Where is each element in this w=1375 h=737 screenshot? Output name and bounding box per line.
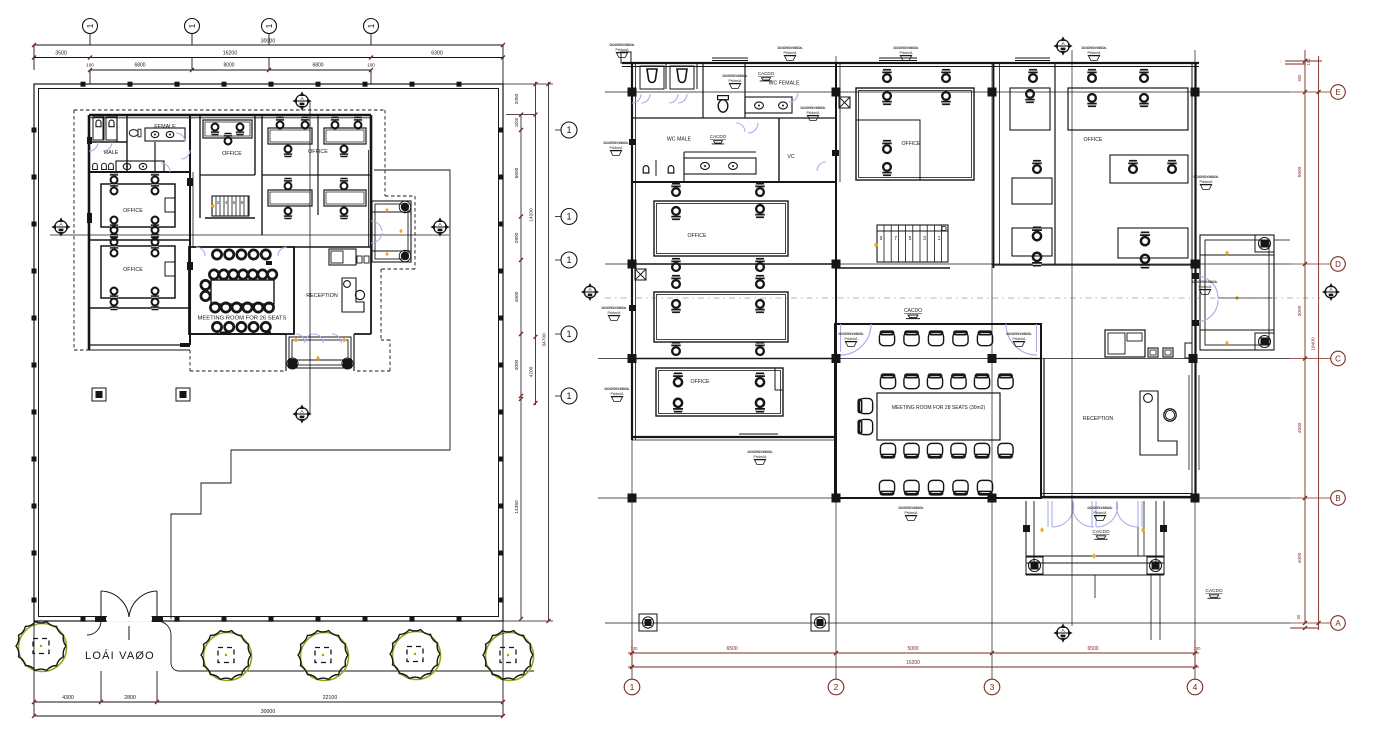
svg-text:OFFICE: OFFICE bbox=[901, 141, 921, 147]
right column offices right plan bbox=[993, 63, 995, 268]
MALE urinals bbox=[93, 163, 98, 169]
reception L desk bbox=[1140, 391, 1177, 455]
svg-text:DOORSYMBOL: DOORSYMBOL bbox=[1193, 280, 1218, 284]
section marker A left bbox=[55, 221, 67, 233]
right office mid desks bbox=[1110, 155, 1188, 183]
svg-text:OFFICE: OFFICE bbox=[123, 267, 143, 273]
WC door arcs bbox=[89, 142, 98, 151]
svg-text:DOORSYMBOL: DOORSYMBOL bbox=[610, 43, 635, 47]
meeting table right plan bbox=[877, 393, 1000, 440]
svg-text:6500: 6500 bbox=[726, 646, 737, 652]
right plan grid bubbles right E D C B A bbox=[1331, 85, 1346, 100]
svg-text:OFFICE: OFFICE bbox=[308, 149, 328, 155]
svg-text:50: 50 bbox=[1296, 614, 1301, 619]
svg-text:16200: 16200 bbox=[223, 51, 238, 57]
svg-text:3500: 3500 bbox=[55, 51, 67, 57]
WC block walls right plan bbox=[632, 117, 836, 119]
svg-text:DOORSYMBOL: DOORSYMBOL bbox=[604, 141, 629, 145]
left plan right-side bubbles bbox=[561, 122, 577, 138]
office C-bottom desks bbox=[656, 368, 783, 416]
right plan grid line A bbox=[605, 622, 1290, 624]
svg-text:1: 1 bbox=[938, 236, 941, 242]
svg-text:Prkbn/A: Prkbn/A bbox=[1088, 51, 1102, 55]
right plan exterior walls bbox=[622, 62, 1199, 64]
svg-text:OFFICE: OFFICE bbox=[222, 151, 242, 157]
svg-text:DOORSYMBOL: DOORSYMBOL bbox=[1007, 332, 1032, 336]
svg-text:100: 100 bbox=[86, 63, 94, 68]
isolated footing columns on grid A bbox=[639, 614, 657, 631]
left plan: top dimension line 30000 bbox=[34, 44, 503, 46]
svg-text:3000: 3000 bbox=[1297, 305, 1303, 316]
svg-text:6500: 6500 bbox=[1087, 646, 1098, 652]
svg-text:DOORSYMBOL: DOORSYMBOL bbox=[748, 450, 773, 454]
terrace columns bbox=[401, 203, 409, 211]
svg-text:CACDO: CACDO bbox=[1205, 588, 1222, 594]
meeting table bbox=[209, 270, 218, 279]
svg-text:Prkbn/A: Prkbn/A bbox=[610, 146, 624, 150]
svg-text:OFFICE: OFFICE bbox=[690, 379, 710, 385]
corridor cacdo labels bbox=[904, 308, 922, 319]
svg-text:Prkbn/A: Prkbn/A bbox=[905, 511, 919, 515]
doorsymbol tags bbox=[610, 43, 635, 52]
meeting room doors bbox=[196, 247, 205, 256]
svg-text:Prkbn/A: Prkbn/A bbox=[900, 51, 914, 55]
svg-text:14350: 14350 bbox=[514, 500, 520, 514]
left offices block 1 walls bbox=[89, 239, 190, 241]
svg-text:1: 1 bbox=[566, 125, 571, 135]
right plan wall jamb blocks bbox=[629, 139, 636, 145]
svg-text:B: B bbox=[1335, 494, 1340, 503]
svg-text:VC: VC bbox=[787, 154, 794, 160]
office D-C desks bbox=[654, 292, 788, 342]
left plan bottom dims bbox=[33, 621, 35, 716]
right office desks top bbox=[1010, 88, 1050, 130]
svg-text:CACDO: CACDO bbox=[758, 71, 775, 76]
svg-text:OFFICE: OFFICE bbox=[123, 208, 143, 214]
right plan grid line 1 bbox=[631, 70, 633, 679]
right plan grid bubbles bottom 1 2 3 4 bbox=[624, 679, 640, 695]
svg-text:A: A bbox=[1335, 619, 1341, 628]
top right office desks/chairs bbox=[276, 117, 285, 129]
meeting room bottom chair row bbox=[212, 322, 221, 331]
svg-text:Prkbn/A: Prkbn/A bbox=[1094, 511, 1108, 515]
WC male urinals bbox=[643, 166, 649, 173]
left building exterior walls bbox=[89, 114, 371, 117]
office E-D desks bbox=[654, 201, 788, 256]
portico door arcs right plan bbox=[1047, 501, 1049, 527]
svg-text:100: 100 bbox=[367, 63, 375, 68]
left plan: building dashed outline bbox=[74, 109, 385, 111]
svg-text:34700: 34700 bbox=[542, 333, 548, 347]
svg-text:30000: 30000 bbox=[261, 709, 276, 715]
meeting room bottom chair row bbox=[879, 480, 894, 494]
meeting room right plan walls bbox=[835, 324, 1041, 498]
terrace columns right plan bbox=[1255, 235, 1274, 252]
portico door arcs bbox=[296, 334, 305, 343]
svg-text:1: 1 bbox=[566, 391, 571, 401]
right plan grid line E bbox=[605, 91, 1290, 93]
svg-text:30000: 30000 bbox=[261, 39, 276, 45]
left plan: top dimension line 100 6800 8000 6800 100 bbox=[90, 69, 371, 71]
right plan grid line 4 bbox=[1194, 50, 1196, 679]
svg-text:Prkbn/A: Prkbn/A bbox=[754, 455, 768, 459]
svg-text:5: 5 bbox=[909, 236, 912, 242]
svg-text:2050: 2050 bbox=[514, 93, 520, 104]
patio slab outline zigzag bbox=[171, 170, 450, 619]
svg-text:Prkbn/A: Prkbn/A bbox=[845, 337, 859, 341]
office1 desks and chairs bbox=[101, 184, 175, 227]
office2 desks and chairs bbox=[101, 246, 175, 298]
portico columns right plan bbox=[1026, 557, 1043, 574]
svg-text:5000: 5000 bbox=[907, 646, 918, 652]
left plan: site boundary double wall bbox=[34, 84, 503, 621]
svg-text:Prkbn/A: Prkbn/A bbox=[1013, 337, 1027, 341]
reception pantry counter bbox=[329, 249, 356, 265]
svg-text:9: 9 bbox=[880, 236, 883, 242]
svg-text:18400: 18400 bbox=[1311, 337, 1317, 351]
svg-text:CACDO: CACDO bbox=[904, 308, 922, 314]
meeting room top chair row bbox=[879, 331, 894, 345]
meeting room upper chairs bbox=[880, 374, 895, 388]
horizontal axis line left plan bbox=[50, 234, 449, 236]
WC urinal stalls top bbox=[640, 66, 664, 89]
top section diamond left plan bbox=[296, 95, 308, 107]
svg-text:6600: 6600 bbox=[514, 167, 520, 178]
svg-text:OFFICE: OFFICE bbox=[687, 233, 707, 239]
svg-text:3: 3 bbox=[923, 236, 926, 242]
right plan grid line C bbox=[598, 358, 1290, 360]
svg-text:FEMALE: FEMALE bbox=[154, 124, 176, 130]
portico cacdo bbox=[1092, 529, 1109, 539]
svg-text:DOORSYMBOL: DOORSYMBOL bbox=[605, 387, 630, 391]
svg-text:DOORSYMBOL: DOORSYMBOL bbox=[778, 46, 803, 50]
svg-text:4200: 4200 bbox=[529, 366, 535, 377]
svg-text:1: 1 bbox=[265, 23, 274, 28]
cacdo label WC bbox=[758, 71, 775, 81]
left column offices right plan bbox=[632, 263, 836, 265]
svg-text:6800: 6800 bbox=[134, 63, 145, 69]
svg-text:DOORSYMBOL: DOORSYMBOL bbox=[602, 306, 627, 310]
door sill office C bbox=[739, 436, 778, 438]
right plan bottom dims maroon bbox=[631, 640, 633, 667]
WC male lower counter bbox=[684, 158, 756, 174]
svg-text:DOORSYMBOL: DOORSYMBOL bbox=[1194, 175, 1219, 179]
svg-text:7: 7 bbox=[894, 236, 897, 242]
reception desk bbox=[342, 278, 364, 312]
svg-text:1: 1 bbox=[566, 329, 571, 339]
pantry stools bbox=[1148, 348, 1158, 357]
left plan right-side dims bbox=[503, 83, 553, 85]
left building wall jamb blocks bbox=[87, 213, 92, 223]
reception room left plan bbox=[293, 247, 295, 334]
svg-text:RECEPTION: RECEPTION bbox=[306, 293, 338, 299]
svg-text:Prkbn/A: Prkbn/A bbox=[611, 392, 625, 396]
entry gate bbox=[107, 615, 152, 622]
svg-text:Prkbn/A: Prkbn/A bbox=[1200, 180, 1214, 184]
bottom porch columns left plan bbox=[92, 388, 106, 401]
svg-text:3: 3 bbox=[990, 682, 995, 692]
meeting room walls left plan bbox=[189, 247, 294, 334]
terrace right side left plan bbox=[372, 201, 411, 262]
right plan axes bbox=[1071, 50, 1073, 626]
terrace door arcs right plan bbox=[1196, 276, 1218, 298]
svg-text:CACDO: CACDO bbox=[710, 134, 727, 139]
right plan grid line 3 bbox=[991, 62, 993, 679]
portico left plan bbox=[285, 334, 287, 371]
svg-text:CACDO: CACDO bbox=[1092, 529, 1109, 535]
left plan: top dimension grid bubbles 1 bbox=[83, 19, 98, 34]
middle office right plan walls bbox=[836, 267, 950, 269]
svg-text:DOORSYMBOL: DOORSYMBOL bbox=[801, 106, 826, 110]
svg-text:4000: 4000 bbox=[514, 359, 520, 370]
svg-text:1: 1 bbox=[566, 212, 571, 222]
svg-text:1: 1 bbox=[367, 23, 376, 28]
column squares grid intersections bbox=[628, 88, 637, 97]
svg-text:C: C bbox=[1335, 354, 1341, 363]
stairs right plan bbox=[877, 225, 948, 262]
svg-text:DOORSYMBOL: DOORSYMBOL bbox=[723, 74, 748, 78]
reception right plan bbox=[1043, 359, 1045, 498]
svg-text:DOORSYMBOL: DOORSYMBOL bbox=[839, 332, 864, 336]
svg-text:Prkbn/A: Prkbn/A bbox=[1199, 285, 1213, 289]
svg-text:16200: 16200 bbox=[906, 660, 920, 666]
svg-text::: : bbox=[1280, 59, 1281, 65]
meeting room doors bbox=[840, 324, 871, 355]
svg-text:22100: 22100 bbox=[323, 695, 338, 701]
cacdo bottom right bbox=[1205, 588, 1222, 598]
svg-text:MEETING ROOM FOR 28 SEATS (30m: MEETING ROOM FOR 28 SEATS (30m2) bbox=[892, 405, 986, 411]
middle office desks bbox=[856, 88, 974, 180]
svg-text:1000: 1000 bbox=[514, 117, 519, 127]
glazing along grid4 D-C bbox=[1188, 375, 1190, 470]
MALE lower basin counter bbox=[116, 161, 164, 172]
svg-text:4300: 4300 bbox=[62, 695, 74, 701]
svg-text:4000: 4000 bbox=[1297, 552, 1303, 563]
bottom section diamond left plan bbox=[296, 408, 308, 420]
svg-text:LOÁI VAØO: LOÁI VAØO bbox=[85, 649, 155, 662]
box-x markers bbox=[635, 269, 646, 280]
svg-text:Prkbn/A: Prkbn/A bbox=[807, 111, 821, 115]
svg-text:900: 900 bbox=[1297, 74, 1302, 82]
svg-text:8000: 8000 bbox=[223, 63, 234, 69]
svg-text:RECEPTION: RECEPTION bbox=[1083, 416, 1114, 422]
right plan grid line D bbox=[605, 263, 1290, 265]
svg-text:OFFICE: OFFICE bbox=[1083, 137, 1103, 143]
svg-text:100: 100 bbox=[631, 646, 639, 651]
terrace door arcs bbox=[371, 221, 382, 231]
right plan grid line B bbox=[598, 497, 1290, 499]
cacdo label WC male bbox=[710, 134, 727, 144]
WC door arcs right plan bbox=[632, 94, 641, 103]
svg-text:E: E bbox=[1335, 88, 1340, 97]
svg-text:1: 1 bbox=[566, 255, 571, 265]
left plan stairs bbox=[212, 196, 249, 216]
pantry right plan bbox=[1040, 324, 1042, 359]
svg-text:1: 1 bbox=[188, 23, 197, 28]
right plan grid line 2 bbox=[835, 56, 837, 679]
svg-text:2: 2 bbox=[834, 682, 839, 692]
right plan right-side dims maroon bbox=[1304, 50, 1306, 623]
left building WC block walls bbox=[89, 141, 127, 143]
right plan top-left corner box bbox=[621, 52, 631, 63]
svg-text:100: 100 bbox=[1194, 646, 1202, 651]
svg-text:5600: 5600 bbox=[1297, 166, 1303, 177]
meeting room chairs top row bbox=[212, 250, 221, 259]
svg-text:DOORSYMBOL: DOORSYMBOL bbox=[1088, 506, 1113, 510]
svg-text:4500: 4500 bbox=[1297, 422, 1303, 433]
svg-text:2800: 2800 bbox=[514, 232, 520, 243]
svg-text:4500: 4500 bbox=[514, 291, 520, 302]
section marker A right bbox=[434, 221, 446, 233]
WC fixtures: two stalls with urinals bbox=[93, 117, 104, 140]
vertical axis line left plan bbox=[309, 101, 311, 414]
svg-text:6800: 6800 bbox=[312, 63, 323, 69]
svg-text:Prkbn/A: Prkbn/A bbox=[616, 48, 630, 52]
WC female toilet bbox=[718, 96, 729, 113]
WC female basin counter bbox=[745, 97, 792, 113]
FEMALE toilet and basin counter bbox=[129, 129, 141, 137]
svg-text:1: 1 bbox=[86, 23, 95, 28]
svg-text:4: 4 bbox=[1193, 682, 1198, 692]
svg-text:6300: 6300 bbox=[431, 51, 443, 57]
svg-text:WC FEMALE: WC FEMALE bbox=[769, 81, 800, 87]
svg-text:DOORSYMBOL: DOORSYMBOL bbox=[894, 46, 919, 50]
top middle office walls bbox=[199, 115, 201, 218]
svg-text:2800: 2800 bbox=[124, 695, 136, 701]
svg-text:DOORSYMBOL: DOORSYMBOL bbox=[1082, 46, 1107, 50]
meeting room lower chairs bbox=[880, 443, 895, 457]
meeting room corner blocks bbox=[220, 332, 230, 336]
ground path line bbox=[157, 621, 534, 671]
svg-text:MEETING ROOM FOR 26 SEATS: MEETING ROOM FOR 26 SEATS bbox=[198, 316, 287, 322]
svg-text:1: 1 bbox=[630, 682, 635, 692]
trees row bbox=[19, 624, 67, 672]
svg-text:DOORSYMBOL: DOORSYMBOL bbox=[899, 506, 924, 510]
svg-text:14200: 14200 bbox=[529, 208, 535, 222]
svg-text:D: D bbox=[1335, 260, 1341, 269]
left plan: site wall tick squares bbox=[81, 82, 86, 87]
portico right plan bbox=[1025, 501, 1027, 575]
svg-text:WC MALE: WC MALE bbox=[667, 137, 692, 143]
right office lower desks bbox=[1118, 228, 1188, 258]
left plan: top dimension line 3500 16200 6300 bbox=[34, 57, 503, 59]
svg-text:Prkbn/A: Prkbn/A bbox=[729, 79, 743, 83]
canopy lines above top wall bbox=[879, 57, 917, 59]
top middle office desks bbox=[203, 120, 252, 138]
terrace right plan bbox=[1200, 235, 1274, 350]
svg-text:Prkbn/A: Prkbn/A bbox=[608, 311, 622, 315]
svg-text:Prkbn/A: Prkbn/A bbox=[784, 51, 798, 55]
top right office walls bbox=[261, 115, 263, 235]
portico columns bbox=[288, 359, 297, 368]
